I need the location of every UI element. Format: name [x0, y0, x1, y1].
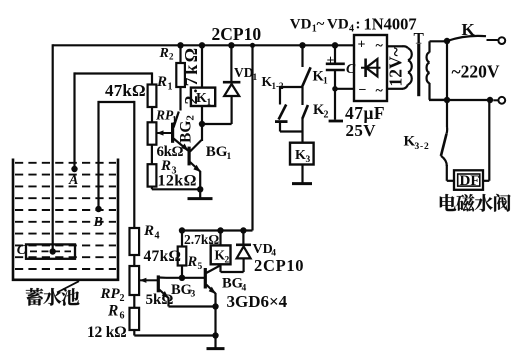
transformer T core	[417, 44, 420, 96]
svg-text:R: R	[143, 223, 154, 239]
wire ground bus of BG1	[152, 188, 200, 190]
svg-text:A: A	[68, 173, 78, 188]
switch K	[447, 36, 486, 41]
svg-text:K: K	[196, 91, 207, 106]
diode VD4 2CP10	[240, 227, 246, 233]
wire electrode A horizontal	[75, 72, 153, 74]
potentiometer RP1	[148, 122, 157, 144]
svg-text:K: K	[295, 148, 306, 163]
wire electrode C drop from bus	[52, 44, 54, 251]
svg-text:DF: DF	[460, 173, 480, 189]
svg-text:5: 5	[198, 262, 203, 272]
svg-text:R: R	[107, 302, 118, 319]
diode VD1 2CP10	[228, 42, 234, 48]
wire lower supply rail	[182, 229, 253, 231]
resistor R6 12k	[133, 295, 135, 308]
svg-text:~: ~	[376, 84, 384, 99]
resistor R2 2.7k	[177, 42, 183, 48]
svg-text:3: 3	[306, 155, 311, 165]
node K switch junction	[444, 38, 450, 44]
node mains bottom junction	[444, 97, 450, 103]
wire bridge to transformer top	[387, 45, 403, 47]
water level dashed lines	[15, 162, 116, 164]
resistor R4 47k	[130, 228, 140, 255]
svg-text:+: +	[358, 38, 366, 53]
relay coil K2	[217, 227, 223, 233]
svg-text:25V: 25V	[346, 121, 377, 140]
contact K2	[301, 87, 303, 105]
wire electrode B drop	[97, 101, 99, 209]
wire mains bottom	[429, 99, 490, 101]
svg-text:12V~: 12V~	[386, 47, 406, 86]
transistor BG1	[188, 147, 191, 166]
svg-text:K: K	[462, 20, 476, 39]
contact K1	[301, 45, 303, 67]
svg-text:1: 1	[227, 152, 232, 162]
wire mains vertical	[446, 41, 448, 127]
svg-text:R: R	[187, 254, 198, 270]
svg-text:1: 1	[168, 82, 173, 93]
svg-text:VD: VD	[327, 16, 349, 32]
electrode C plate	[26, 244, 75, 258]
relay coil K3	[290, 143, 314, 165]
relay coil K1	[199, 42, 205, 48]
ground main bottom	[214, 336, 216, 349]
svg-text:6: 6	[120, 311, 125, 322]
ground under BG1	[199, 189, 201, 198]
svg-text:47μF: 47μF	[345, 103, 385, 123]
node B electrode tip	[95, 206, 101, 212]
svg-text:−: −	[359, 83, 367, 98]
solenoid valve DF box	[447, 180, 454, 182]
ground under K3	[301, 165, 303, 184]
svg-text:+: +	[327, 54, 335, 69]
wire R1 top lead	[151, 72, 153, 84]
svg-text:B: B	[93, 215, 103, 230]
svg-text:12 kΩ: 12 kΩ	[87, 324, 126, 341]
wire K1-2 branch top	[280, 86, 303, 88]
transistor BG2	[171, 123, 174, 143]
svg-text:BG: BG	[206, 144, 228, 160]
svg-text:2: 2	[225, 256, 230, 266]
svg-text:1: 1	[323, 77, 328, 87]
svg-text:VD: VD	[253, 242, 273, 257]
node BG1 collector junction	[199, 121, 205, 127]
wire bottom ground bus	[134, 334, 215, 336]
svg-text:2: 2	[324, 110, 329, 121]
svg-text:2: 2	[169, 52, 174, 62]
resistor R1 47k	[148, 85, 157, 108]
bridge rectifier	[354, 35, 387, 101]
wire K1-2 branch bottom	[279, 122, 281, 132]
transistor BG3	[157, 275, 160, 292]
svg-text:3: 3	[191, 290, 196, 300]
svg-text:VD: VD	[234, 65, 254, 80]
wire R4 long drop	[133, 101, 135, 228]
wire primary bottom	[428, 83, 430, 100]
svg-text:4: 4	[349, 23, 354, 34]
resistor R5 2.7k	[179, 227, 185, 233]
water tank walls	[13, 159, 118, 280]
wire bridge to transformer bottom	[387, 88, 403, 90]
wire right vertical from bus	[251, 45, 253, 230]
svg-text:C: C	[17, 243, 27, 258]
transformer T primary winding	[427, 52, 430, 62]
svg-text:RP: RP	[100, 286, 121, 302]
contact K3-2	[445, 127, 448, 134]
wire DF to mains	[483, 180, 489, 182]
wire 2CP10 positive bus (net 2CP10)	[53, 44, 354, 46]
svg-text:3-2: 3-2	[415, 142, 430, 152]
contact K1-2	[279, 105, 287, 120]
svg-text:4: 4	[155, 231, 160, 242]
svg-text:2: 2	[120, 293, 125, 304]
potentiometer RP2	[130, 266, 140, 295]
transformer T secondary winding	[408, 48, 412, 60]
wire electrode B horizontal	[99, 101, 135, 103]
ground bar under capacitor	[329, 120, 343, 123]
label valve 电磁水阀	[440, 194, 456, 211]
resistor R3 12k	[151, 145, 153, 165]
wire BG3 collector to BG4 base	[166, 277, 205, 279]
label tank 蓄水池	[26, 288, 43, 306]
svg-text:12kΩ: 12kΩ	[158, 173, 197, 190]
svg-text:R: R	[156, 74, 167, 90]
svg-text:T: T	[414, 30, 425, 47]
svg-text:R: R	[159, 46, 169, 61]
svg-text:1N4007: 1N4007	[364, 15, 417, 34]
svg-text:3GD6×4: 3GD6×4	[227, 292, 288, 311]
wire primary top	[428, 41, 430, 52]
svg-text:~: ~	[376, 39, 384, 54]
capacitor C 47uF	[334, 45, 336, 63]
svg-text::: :	[356, 16, 361, 32]
node bus junction K1 branch	[299, 42, 305, 48]
svg-text:VD: VD	[290, 16, 312, 32]
svg-text:47kΩ: 47kΩ	[144, 248, 182, 265]
svg-text:2CP10: 2CP10	[212, 24, 262, 44]
wire bridge minus to cap	[335, 88, 354, 90]
svg-text:1-2: 1-2	[272, 81, 284, 91]
svg-text:1: 1	[207, 98, 212, 108]
svg-text:BG: BG	[222, 276, 243, 292]
svg-text:2CP10: 2CP10	[254, 256, 304, 275]
svg-text:BG: BG	[171, 282, 192, 298]
transistor BG4	[204, 268, 207, 289]
svg-text:47kΩ: 47kΩ	[105, 81, 146, 100]
svg-text:~220V: ~220V	[452, 62, 500, 82]
node BG3 emitter junction	[212, 303, 218, 309]
node A electrode tip	[71, 166, 77, 172]
wire electrode A drop	[73, 72, 75, 169]
svg-text:~: ~	[317, 16, 325, 32]
